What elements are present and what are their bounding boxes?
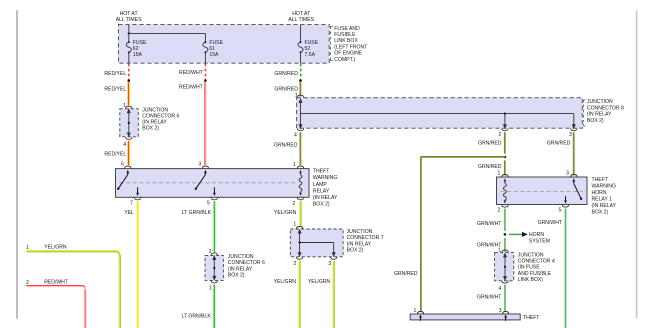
pin 2 arc lamp relay bbox=[297, 198, 303, 200]
svg-text:RED/YEL: RED/YEL bbox=[104, 87, 126, 93]
svg-text:THEFT: THEFT bbox=[592, 177, 608, 183]
junction connector 6 lower internal node bbox=[213, 267, 215, 269]
svg-text:1: 1 bbox=[498, 171, 501, 177]
svg-text:4: 4 bbox=[123, 142, 126, 148]
wire RED/YEL dashed stub below fuse 62 bbox=[128, 64, 130, 80]
pin 1 arc junction connector 8 bbox=[297, 95, 303, 97]
junction connector 4 internal wire bbox=[504, 254, 507, 280]
svg-text:FUSIBLE: FUSIBLE bbox=[334, 32, 356, 38]
svg-text:2: 2 bbox=[498, 132, 501, 138]
splice node RED/YEL bbox=[128, 79, 131, 82]
pin 3 arc theft box bbox=[502, 312, 508, 314]
svg-text:1: 1 bbox=[209, 286, 212, 292]
junction connector 7 internal wires bbox=[298, 230, 335, 256]
wire YEL/GRN from lamp relay pin 2 bbox=[300, 201, 301, 226]
svg-text:GRN/WHT: GRN/WHT bbox=[538, 220, 562, 226]
svg-text:LINK BOX: LINK BOX bbox=[334, 38, 358, 44]
svg-text:CONNECTOR 8: CONNECTOR 8 bbox=[587, 105, 624, 111]
wire YEL/GRN below junction connector 7 pin 3 bbox=[333, 261, 334, 328]
wire GRN/RED to junction connector 8 pin 1 bbox=[299, 82, 302, 96]
wire RED/WHT dashed stub below fuse 61 bbox=[204, 64, 206, 80]
svg-text:LT GRN/BLK: LT GRN/BLK bbox=[182, 314, 212, 320]
svg-text:FUSE AND: FUSE AND bbox=[334, 26, 360, 32]
svg-text:RED/WHT: RED/WHT bbox=[179, 70, 203, 76]
pin 1 arc lamp relay bbox=[297, 166, 303, 168]
svg-text:THEFT: THEFT bbox=[313, 169, 329, 175]
label horn system bbox=[529, 232, 550, 244]
wire RED/WHT down to lamp relay pin 3 bbox=[205, 82, 206, 165]
pin 3 arc lamp relay bbox=[202, 166, 208, 168]
svg-text:1: 1 bbox=[413, 308, 416, 314]
label junction connector 6 lower bbox=[228, 254, 265, 279]
junction connector 6 internal wire bbox=[127, 109, 130, 136]
junction connector 6 internal node bbox=[128, 122, 130, 124]
pin 6 arc lamp relay bbox=[125, 166, 131, 168]
svg-text:GRN/RED: GRN/RED bbox=[274, 142, 298, 148]
svg-text:GRN/RED: GRN/RED bbox=[274, 71, 298, 77]
wire GRN/WHT from horn relay pin 5 bbox=[565, 209, 567, 328]
svg-text:JUNCTION: JUNCTION bbox=[587, 99, 613, 105]
svg-text:YEL/GRN: YEL/GRN bbox=[274, 210, 297, 216]
wire YEL from lamp relay pin 7 bbox=[137, 201, 139, 328]
svg-text:HORN: HORN bbox=[592, 190, 607, 196]
svg-text:(LEFT FRONT: (LEFT FRONT bbox=[334, 44, 367, 50]
svg-text:3: 3 bbox=[199, 162, 202, 168]
horn relay coil bbox=[503, 178, 506, 203]
junction connector 8 internal bus bbox=[299, 99, 575, 128]
svg-text:JUNCTION: JUNCTION bbox=[518, 252, 544, 258]
pin 2 arc junction connector 7 bbox=[296, 257, 302, 259]
lamp relay switch 6-7 bbox=[117, 170, 139, 196]
junction connector 7 box bbox=[290, 229, 343, 257]
horn system arrow bbox=[509, 232, 528, 237]
svg-text:YEL/GRN: YEL/GRN bbox=[44, 244, 67, 250]
junction connector 6 lower box bbox=[205, 255, 223, 280]
svg-text:1: 1 bbox=[293, 221, 296, 227]
pin 1 arc theft box bbox=[417, 312, 423, 314]
wire GRN/WHT junction connector 4 to theft box pin 3 bbox=[504, 285, 506, 312]
wire GRN/WHT from horn relay pin 2 bbox=[504, 209, 506, 231]
svg-text:GRN/RED: GRN/RED bbox=[478, 140, 502, 146]
svg-text:JUNCTION: JUNCTION bbox=[142, 107, 168, 113]
svg-text:RELAY: RELAY bbox=[313, 188, 330, 194]
wire GRN/RED JC8 pin 3 to horn relay pin 3 bbox=[572, 132, 575, 175]
label fuse and fusible link box bbox=[334, 26, 367, 63]
pin 2 arc horn relay bbox=[502, 205, 508, 207]
label HOT AT ALL TIMES (left feed) bbox=[116, 11, 142, 23]
svg-text:WARNING: WARNING bbox=[592, 184, 616, 190]
fuse 62 bbox=[126, 25, 147, 63]
wire GRN/RED JC8 pin 2 down bbox=[504, 132, 507, 175]
wire RED/YEL to lamp relay pin 6 bbox=[128, 141, 129, 165]
wire GRN/RED down to theft box pin 1 bbox=[420, 156, 423, 311]
splice node GRN/RED bbox=[299, 79, 302, 82]
svg-text:RED/WHT: RED/WHT bbox=[179, 84, 203, 90]
svg-text:BOX 2): BOX 2) bbox=[313, 202, 330, 208]
theft box pin 3 internal arrow bbox=[504, 314, 507, 320]
svg-text:(IN RELAY: (IN RELAY bbox=[142, 120, 167, 126]
svg-text:YEL/GRN: YEL/GRN bbox=[308, 279, 331, 285]
svg-text:CONNECTOR 6: CONNECTOR 6 bbox=[142, 113, 179, 119]
junction connector 8 internal node bbox=[504, 113, 506, 115]
pin 4 arc junction connector 4 bbox=[502, 281, 508, 283]
svg-text:2: 2 bbox=[294, 261, 297, 267]
svg-text:GRN/WHT: GRN/WHT bbox=[477, 295, 501, 301]
svg-text:5: 5 bbox=[207, 201, 210, 207]
pin 3 arc horn relay bbox=[571, 175, 577, 177]
svg-text:LINK BOX): LINK BOX) bbox=[518, 277, 543, 283]
svg-text:RELAY 1: RELAY 1 bbox=[592, 197, 613, 203]
pin 4 arc junction connector 6 bbox=[126, 137, 132, 139]
svg-text:BOX 2): BOX 2) bbox=[587, 118, 604, 124]
right page guide line bbox=[636, 10, 638, 318]
fuse 61 bbox=[203, 40, 224, 63]
junction connector 6 upper box bbox=[120, 109, 139, 137]
svg-text:3: 3 bbox=[328, 261, 331, 267]
svg-text:WARNING: WARNING bbox=[313, 175, 337, 181]
svg-text:(IN RELAY: (IN RELAY bbox=[313, 195, 338, 201]
svg-text:(IN RELAY: (IN RELAY bbox=[228, 266, 253, 272]
pin 3 arc junction connector 8 bbox=[571, 128, 577, 130]
pin 1 arc horn relay bbox=[502, 175, 508, 177]
svg-text:4: 4 bbox=[499, 286, 502, 292]
pin 1 arc junction connector 6 lower bbox=[211, 281, 217, 283]
svg-text:AND FUSIBLE: AND FUSIBLE bbox=[518, 271, 552, 277]
svg-text:JUNCTION: JUNCTION bbox=[347, 229, 373, 235]
svg-text:LAMP: LAMP bbox=[313, 182, 327, 188]
svg-text:CONNECTOR 6: CONNECTOR 6 bbox=[228, 260, 265, 266]
pin 3 arc junction connector 7 bbox=[331, 257, 337, 259]
svg-text:3: 3 bbox=[566, 171, 569, 177]
svg-text:RED/YEL: RED/YEL bbox=[104, 71, 126, 77]
svg-text:2: 2 bbox=[498, 207, 501, 213]
svg-text:RED/WHT: RED/WHT bbox=[44, 279, 68, 285]
svg-text:RED/YEL: RED/YEL bbox=[104, 151, 126, 157]
svg-text:1: 1 bbox=[293, 162, 296, 168]
lamp relay internal dashed line bbox=[120, 182, 296, 184]
svg-text:HORN: HORN bbox=[529, 232, 544, 238]
pin 1 arc junction connector 7 bbox=[296, 227, 302, 229]
wire RED/YEL to junction connector 6 bbox=[128, 82, 129, 105]
svg-text:HOT AT: HOT AT bbox=[292, 11, 310, 17]
svg-text:3: 3 bbox=[499, 308, 502, 314]
splice node GRN/WHT bbox=[504, 233, 507, 236]
svg-text:JUNCTION: JUNCTION bbox=[228, 254, 254, 260]
svg-text:2: 2 bbox=[292, 201, 295, 207]
svg-text:GRN/RED: GRN/RED bbox=[547, 140, 571, 146]
wire feed fuse 62 bbox=[129, 33, 206, 41]
svg-text:SYSTEM: SYSTEM bbox=[529, 238, 550, 244]
splice node GRN/RED bbox=[504, 156, 507, 159]
wire YEL/GRN below junction connector 7 pin 2 bbox=[299, 261, 300, 328]
svg-text:YEL: YEL bbox=[124, 210, 134, 216]
splice node RED/WHT bbox=[204, 79, 207, 82]
label junction connector 8 bbox=[587, 99, 624, 124]
svg-text:BOX 2): BOX 2) bbox=[142, 126, 159, 132]
theft warning lamp relay box bbox=[116, 169, 310, 198]
svg-text:GRN/RED: GRN/RED bbox=[478, 164, 502, 170]
svg-text:CONNECTOR 4: CONNECTOR 4 bbox=[518, 259, 555, 265]
svg-text:HOT AT: HOT AT bbox=[120, 11, 138, 17]
svg-text:6: 6 bbox=[121, 162, 124, 168]
theft box pin 1 internal arrow bbox=[419, 314, 422, 320]
svg-text:GRN/RED: GRN/RED bbox=[394, 271, 418, 277]
wire GRN dashed stub below fuse 52 bbox=[300, 64, 302, 80]
pin 5 arc lamp relay bbox=[211, 198, 217, 200]
pin 4 arc junction connector 8 bbox=[297, 128, 303, 130]
left page guide line bbox=[16, 10, 18, 318]
left reference 2 RED/WHT bbox=[26, 279, 86, 328]
horn relay switch 3-5 bbox=[564, 178, 582, 203]
lamp relay switch 3-5 bbox=[195, 170, 216, 196]
junction connector 4 internal node bbox=[504, 266, 506, 268]
wire LT GRN/BLK below junction connector 6 lower bbox=[213, 284, 215, 328]
label theft warning horn relay 1 bbox=[592, 177, 617, 216]
label junction connector 6 bbox=[142, 107, 179, 131]
fuse 52 bbox=[298, 25, 319, 63]
svg-text:7: 7 bbox=[130, 201, 133, 207]
svg-text:COMPT.): COMPT.) bbox=[334, 57, 355, 63]
pin 1 arc junction connector 6 bbox=[126, 106, 132, 108]
label theft warning lamp relay bbox=[313, 169, 338, 208]
svg-text:15A: 15A bbox=[133, 52, 143, 58]
pin 5 arc horn relay bbox=[562, 205, 568, 207]
junction connector 6 lower internal wire bbox=[213, 256, 216, 279]
svg-text:LT GRN/BLK: LT GRN/BLK bbox=[182, 210, 212, 216]
svg-text:7.5A: 7.5A bbox=[305, 52, 316, 58]
theft warning horn relay 1 box bbox=[497, 177, 588, 205]
svg-text:OF ENGINE: OF ENGINE bbox=[334, 51, 363, 57]
pin 3 arc junction connector 6 lower bbox=[211, 253, 217, 255]
svg-text:(IN FUSE: (IN FUSE bbox=[518, 265, 540, 271]
svg-text:4: 4 bbox=[294, 133, 297, 139]
left reference 1 YEL/GRN bbox=[26, 244, 120, 328]
pin 2 arc junction connector 8 bbox=[502, 128, 508, 130]
wire GRN/RED JC8 pin 4 to lamp relay pin 1 bbox=[299, 132, 302, 165]
theft warning ecu box (bottom) bbox=[410, 314, 520, 320]
svg-text:(IN RELAY: (IN RELAY bbox=[587, 112, 612, 118]
fuse and fusible link box bbox=[118, 25, 329, 64]
svg-text:GRN/WHT: GRN/WHT bbox=[477, 221, 501, 227]
svg-text:CONNECTOR 7: CONNECTOR 7 bbox=[347, 235, 384, 241]
svg-text:15A: 15A bbox=[209, 52, 219, 58]
svg-text:BOX 2): BOX 2) bbox=[347, 248, 364, 254]
svg-text:(IN RELAY: (IN RELAY bbox=[592, 203, 617, 209]
fuse box label bracket bbox=[331, 26, 333, 60]
svg-text:BOX 2): BOX 2) bbox=[228, 273, 245, 279]
junction connector 8 label bracket bbox=[584, 100, 586, 126]
lamp relay coil bbox=[299, 170, 302, 196]
node feed junction bbox=[128, 32, 130, 34]
svg-text:YEL/GRN: YEL/GRN bbox=[274, 279, 297, 285]
junction connector 7 internal node bbox=[299, 241, 301, 243]
svg-text:THEFT: THEFT bbox=[523, 315, 539, 321]
wire LT GRN/BLK from lamp relay pin 5 bbox=[213, 201, 215, 252]
pin 7 arc lamp relay bbox=[134, 198, 140, 200]
junction connector 8 box bbox=[297, 98, 583, 129]
label junction connector 4 bbox=[518, 252, 555, 283]
junction connector 4 box bbox=[495, 253, 514, 281]
svg-text:ALL TIMES: ALL TIMES bbox=[288, 17, 314, 23]
svg-text:5: 5 bbox=[559, 207, 562, 213]
wire GRN/RED branch to left bbox=[421, 156, 505, 159]
svg-text:ALL TIMES: ALL TIMES bbox=[116, 17, 142, 23]
svg-text:BOX 2): BOX 2) bbox=[592, 210, 609, 216]
label junction connector 7 bbox=[347, 229, 384, 254]
horn relay internal dashed line bbox=[501, 190, 584, 192]
svg-text:(IN RELAY: (IN RELAY bbox=[347, 241, 372, 247]
svg-text:3: 3 bbox=[569, 132, 572, 138]
label HOT AT ALL TIMES (right feed) bbox=[288, 11, 314, 23]
pin 1 arc junction connector 4 bbox=[502, 250, 508, 252]
